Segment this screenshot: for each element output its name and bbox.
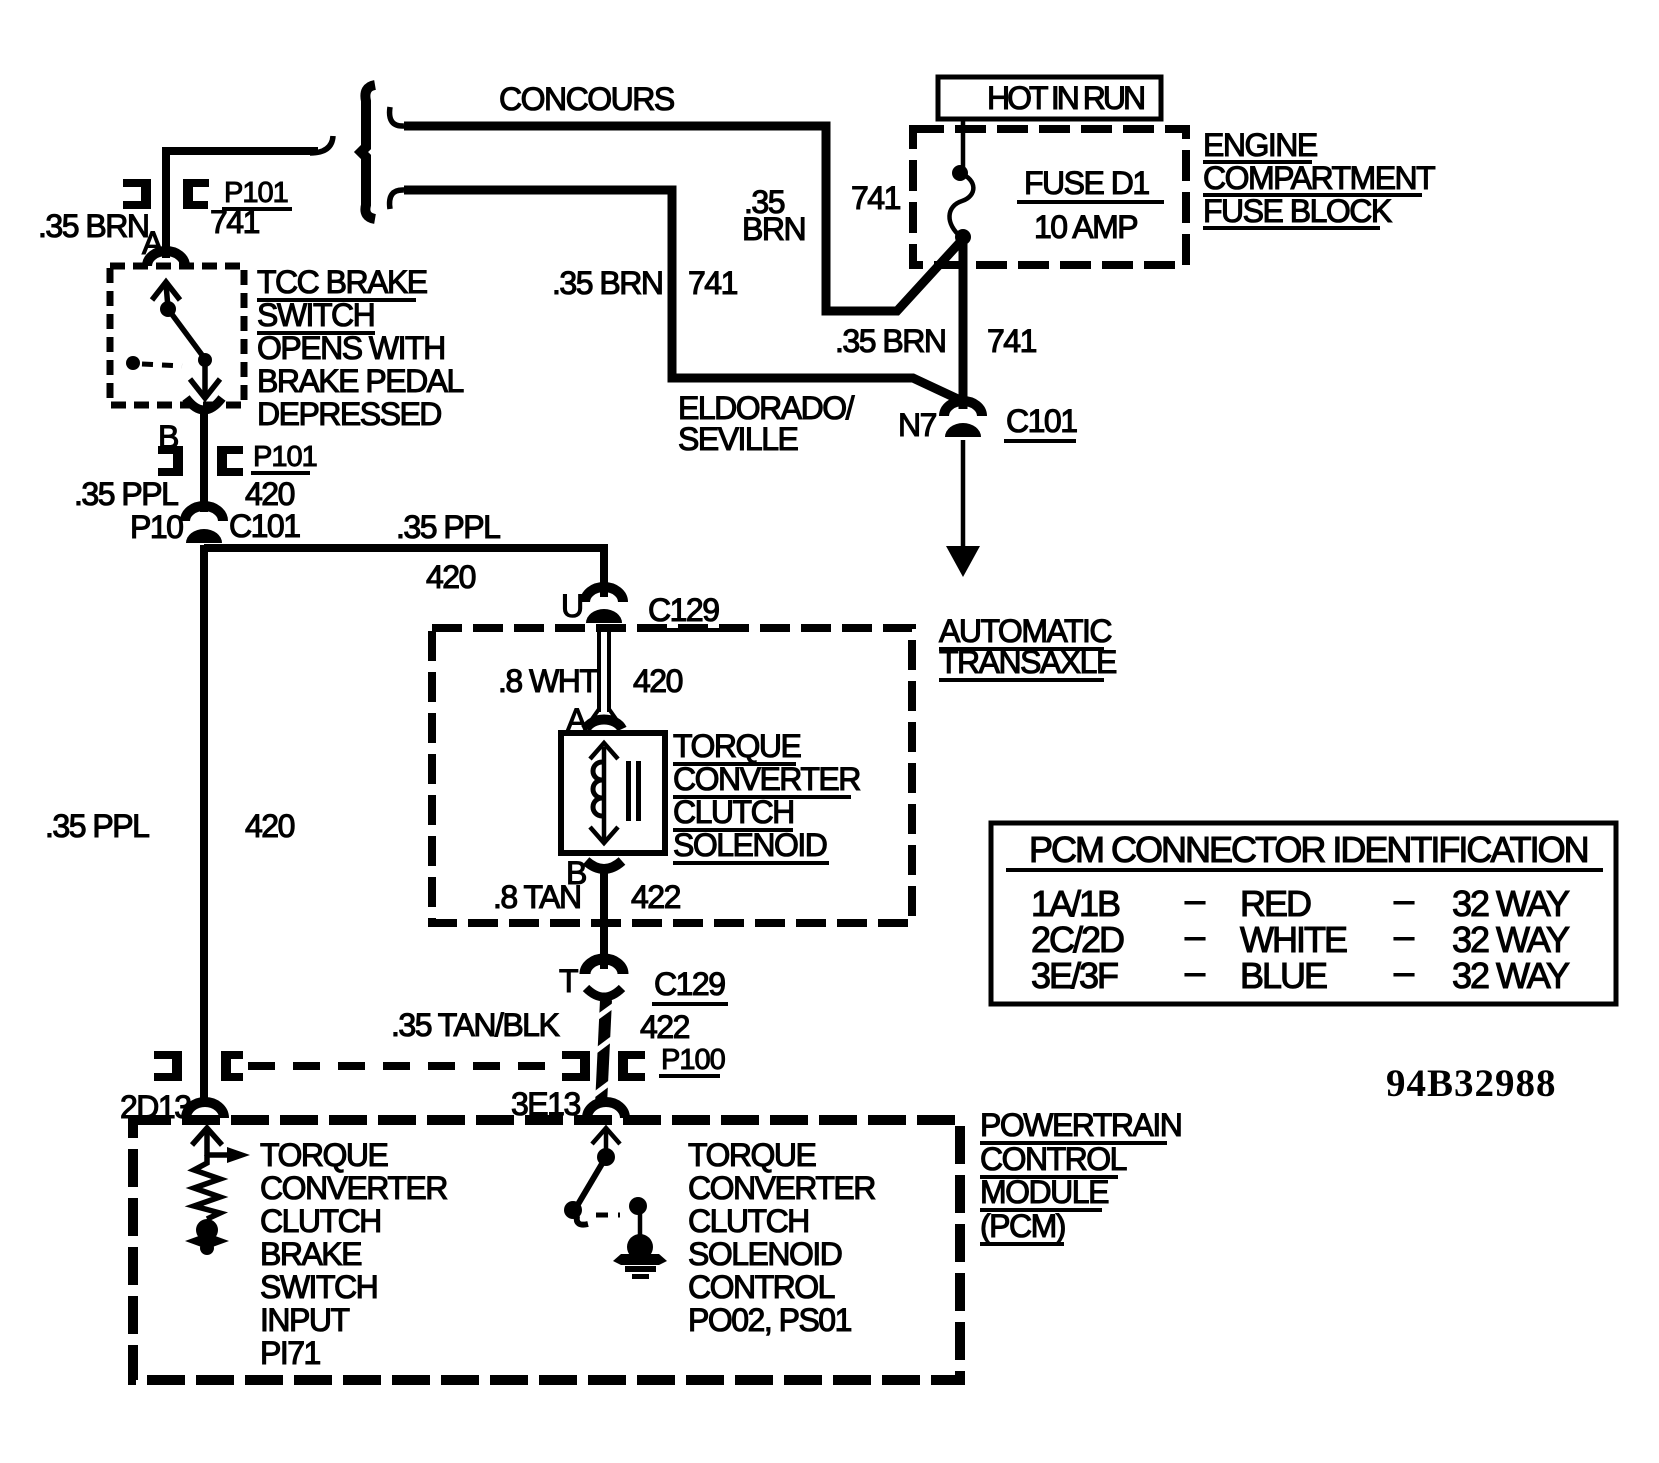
svg-text:DEPRESSED: DEPRESSED [257, 396, 441, 432]
svg-text:P10: P10 [130, 509, 183, 545]
svg-text:COMPARTMENT: COMPARTMENT [1203, 160, 1435, 196]
label .35 TAN/BLK 422 [391, 1007, 690, 1045]
svg-text:CONVERTER: CONVERTER [688, 1170, 875, 1206]
switch S1 CONCOURS selector bar [361, 85, 375, 219]
ground symbol in PCM [613, 1234, 667, 1279]
svg-text:CONTROL: CONTROL [688, 1269, 835, 1305]
svg-text:C129: C129 [648, 592, 719, 628]
label ENGINE COMPARTMENT FUSE BLOCK [1203, 127, 1435, 229]
svg-text:741: 741 [851, 180, 901, 216]
label .35 BRN (stacked) right of corner [742, 184, 805, 247]
svg-text:SOLENOID: SOLENOID [688, 1236, 842, 1272]
svg-text:420: 420 [426, 559, 476, 595]
svg-text:CONVERTER: CONVERTER [673, 761, 860, 797]
wire: brake switch feed left horizontal to CONCOURS switch contact [166, 136, 333, 258]
connector 2D13 cap [186, 1102, 224, 1118]
switch S1 upper fixed contact [390, 107, 404, 126]
svg-text:SEVILLE: SEVILLE [678, 421, 798, 457]
svg-text:422: 422 [640, 1009, 690, 1045]
svg-text:HOT IN RUN: HOT IN RUN [987, 80, 1144, 116]
connector P100 right brackets [562, 1051, 645, 1081]
switch: TCC brake switch arm [152, 282, 220, 398]
svg-text:.35 BRN: .35 BRN [38, 208, 148, 244]
svg-text:32 WAY: 32 WAY [1452, 883, 1570, 924]
svg-text:–: – [1185, 879, 1205, 920]
label .35 PPL 420 mid left [45, 808, 295, 844]
connector P101 upper brackets [123, 179, 209, 209]
label .35 BRN 741 mid [552, 265, 738, 301]
label .8 TAN 422 [493, 879, 681, 915]
connector 3E13 cap [587, 1102, 625, 1118]
svg-text:3E/3F: 3E/3F [1031, 955, 1118, 996]
svg-text:N7: N7 [898, 407, 937, 443]
box: HOT IN RUN [938, 77, 1161, 119]
svg-text:741: 741 [987, 323, 1037, 359]
label C101 (right) [1004, 403, 1077, 441]
svg-text:P100: P100 [661, 1044, 725, 1076]
svg-text:CLUTCH: CLUTCH [673, 794, 794, 830]
box: TCC brake switch (dashed) [110, 266, 244, 405]
connector A cap at TCC brake switch [147, 251, 185, 266]
svg-text:P101: P101 [253, 441, 317, 473]
wire: branch to U C129 [204, 548, 604, 597]
label TORQUE CONVERTER CLUTCH BRAKE SWITCH INPUT PI71 [260, 1137, 447, 1371]
wire: solenoid B down to T C129 [600, 866, 608, 969]
svg-text:FUSE BLOCK: FUSE BLOCK [1203, 193, 1392, 229]
svg-text:TORQUE: TORQUE [688, 1137, 815, 1173]
connector B at bottom of TCC brake switch [186, 398, 222, 410]
svg-text:CONVERTER: CONVERTER [260, 1170, 447, 1206]
label .8 WHT 420 [498, 663, 683, 699]
connector P101 lower brackets [158, 446, 243, 476]
label C129 upper [646, 592, 722, 630]
svg-text:420: 420 [245, 808, 295, 844]
svg-text:(PCM): (PCM) [980, 1208, 1065, 1244]
svg-text:94B32988: 94B32988 [1386, 1062, 1557, 1105]
box: PCM (dashed) [133, 1120, 960, 1380]
label ELDORADO/SEVILLE [678, 390, 855, 457]
wire: ELDORADO/SEVILLE branch 741 [404, 190, 960, 400]
svg-text:CLUTCH: CLUTCH [260, 1203, 381, 1239]
label C129 lower [652, 966, 728, 1004]
table: PCM connector identification [991, 823, 1616, 1004]
label P101 upper [222, 177, 292, 209]
svg-text:420: 420 [633, 663, 683, 699]
connector B cap at solenoid bottom [586, 861, 622, 869]
wire: fuse output down to C101 N7 [959, 240, 968, 409]
connector A cap at solenoid [586, 719, 622, 729]
label .35 BRN 741 near C101 [835, 323, 1037, 359]
label FUSE D1 / 10 AMP [1017, 165, 1164, 245]
svg-text:INPUT: INPUT [260, 1302, 349, 1338]
svg-text:10 AMP: 10 AMP [1034, 209, 1137, 245]
svg-text:PCM CONNECTOR IDENTIFICATION: PCM CONNECTOR IDENTIFICATION [1029, 829, 1588, 870]
box: engine compartment fuse block (dashed) [913, 129, 1186, 265]
PCM internal: solenoid control switch [564, 1128, 647, 1240]
svg-text:POWERTRAIN: POWERTRAIN [980, 1107, 1181, 1143]
connector C101 P10 [185, 506, 223, 543]
svg-text:RED: RED [1240, 883, 1311, 924]
svg-text:MODULE: MODULE [980, 1174, 1108, 1210]
svg-text:BRAKE PEDAL: BRAKE PEDAL [257, 363, 464, 399]
fuse D1 element [949, 119, 973, 245]
svg-text:CONTROL: CONTROL [980, 1141, 1127, 1177]
wire: double line U to solenoid A [592, 625, 616, 719]
svg-text:–: – [1394, 879, 1414, 920]
svg-text:741: 741 [210, 204, 260, 240]
svg-text:.35 BRN: .35 BRN [552, 265, 662, 301]
connector P100 left brackets [154, 1051, 243, 1081]
label TORQUE CONVERTER CLUTCH SOLENOID CONTROL PO02, PS01 [688, 1137, 875, 1338]
svg-text:.8 WHT: .8 WHT [498, 663, 598, 699]
svg-text:.35 PPL: .35 PPL [396, 509, 500, 545]
svg-text:422: 422 [631, 879, 681, 915]
svg-text:C129: C129 [654, 966, 725, 1002]
wire: CONCOURS branch 741 to fuse [404, 126, 962, 311]
wire: arrow down to automatic transaxle [946, 440, 980, 577]
svg-text:BRN: BRN [742, 211, 805, 247]
label AUTOMATIC TRANSAXLE [939, 613, 1116, 680]
dashed wire P100 [248, 1062, 558, 1070]
label TORQUE CONVERTER CLUTCH SOLENOID [673, 728, 860, 863]
svg-text:CLUTCH: CLUTCH [688, 1203, 809, 1239]
svg-text:C101: C101 [229, 508, 300, 544]
connector T C129 [585, 959, 623, 997]
mechanical link dashed with dot [126, 356, 182, 370]
svg-text:FUSE D1: FUSE D1 [1024, 165, 1149, 201]
svg-text:SOLENOID: SOLENOID [673, 827, 827, 863]
connector C101 N7 [944, 401, 982, 437]
svg-text:1A/1B: 1A/1B [1031, 883, 1120, 924]
svg-text:BLUE: BLUE [1240, 955, 1327, 996]
connector U C129 [585, 587, 623, 623]
svg-text:TCC BRAKE: TCC BRAKE [257, 264, 427, 300]
PCM internal: brake switch input circuit [185, 1128, 250, 1255]
svg-text:WHITE: WHITE [1240, 919, 1347, 960]
svg-text:U: U [561, 588, 583, 624]
label POWERTRAIN CONTROL MODULE (PCM) [980, 1107, 1181, 1244]
svg-text:–: – [1394, 951, 1414, 992]
svg-text:–: – [1185, 951, 1205, 992]
svg-text:C101: C101 [1006, 403, 1077, 439]
svg-text:BRAKE: BRAKE [260, 1236, 361, 1272]
svg-text:CONCOURS: CONCOURS [499, 81, 674, 117]
svg-text:32 WAY: 32 WAY [1452, 955, 1570, 996]
svg-text:PI71: PI71 [260, 1335, 321, 1371]
label C101 [227, 508, 302, 546]
wire: long vertical .35 PPL 420 to PCM 2D13 [200, 545, 208, 1101]
label P100 [659, 1044, 725, 1076]
svg-text:.35 TAN/BLK: .35 TAN/BLK [391, 1007, 559, 1043]
svg-text:SWITCH: SWITCH [257, 297, 374, 333]
svg-text:TORQUE: TORQUE [260, 1137, 387, 1173]
wire: B down to C101 [200, 412, 208, 512]
switch S1 lower fixed contact [390, 190, 404, 209]
box: automatic transaxle (dashed) [432, 628, 912, 923]
svg-text:–: – [1394, 915, 1414, 956]
svg-text:420: 420 [245, 476, 295, 512]
svg-text:.35 PPL: .35 PPL [45, 808, 149, 844]
svg-text:SWITCH: SWITCH [260, 1269, 377, 1305]
label TCC BRAKE SWITCH OPENS WITH BRAKE PEDAL DEPRESSED [257, 264, 464, 432]
svg-text:–: – [1185, 915, 1205, 956]
wire: slashed wire T to 3E13 [591, 1000, 617, 1105]
svg-text:741: 741 [688, 265, 738, 301]
label P101 lower [251, 441, 317, 473]
svg-text:PO02, PS01: PO02, PS01 [688, 1302, 852, 1338]
svg-text:TRANSAXLE: TRANSAXLE [939, 644, 1116, 680]
svg-text:T: T [559, 963, 578, 999]
svg-text:.35 BRN: .35 BRN [835, 323, 945, 359]
svg-text:.35 PPL: .35 PPL [74, 476, 178, 512]
svg-text:OPENS WITH: OPENS WITH [257, 330, 445, 366]
svg-text:TORQUE: TORQUE [673, 728, 800, 764]
solenoid: torque converter clutch solenoid [561, 733, 665, 853]
svg-text:.8 TAN: .8 TAN [493, 879, 581, 915]
svg-text:2C/2D: 2C/2D [1031, 919, 1124, 960]
svg-text:ENGINE: ENGINE [1203, 127, 1317, 163]
svg-text:32 WAY: 32 WAY [1452, 919, 1570, 960]
label .35 PPL 420 upper branch [396, 509, 500, 595]
label .35 PPL 420 [74, 476, 295, 512]
